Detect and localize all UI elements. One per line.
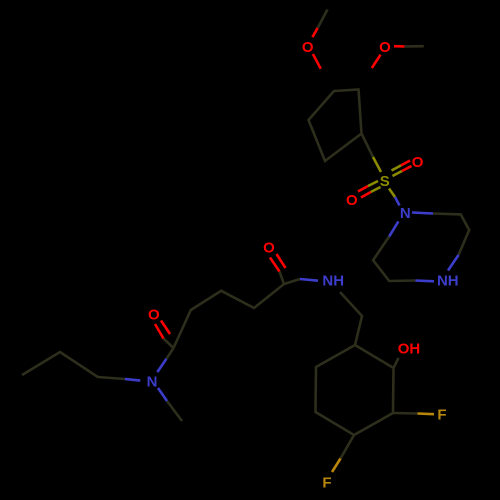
bond amide1 C to NH [284,279,300,284]
bond piperazine NH to C3 (blue half) [448,255,459,271]
glutaramide chain [174,272,285,349]
double bond S=O4 line 1 [358,181,378,192]
svg-text:OH: OH [398,340,421,357]
methyl on N2 [167,401,182,421]
svg-text:F: F [322,474,331,491]
double bond C=O6 line 1 [155,324,164,339]
bond amide NH to carbonyl C (blue half) [300,279,318,281]
bond ring1 to S [362,134,374,158]
double bond C=O6 line 2 [161,321,170,335]
double bond S=O3 line 1 [392,161,411,171]
double bond S=O3 line 2 [393,166,412,176]
chain NH to ring2 [340,292,362,345]
double bond S=O4 line 2 [361,187,381,198]
bond O1 to methyl (red half) [312,28,317,37]
bond N1 to piperazine C2 (blue half) [412,213,433,214]
double bond C=O5 line 1 [270,258,280,272]
bond N1 to piperazine C6 (blue half) [389,221,398,236]
svg-text:O: O [412,154,424,171]
piperazine ring carbons upper [433,214,469,256]
benzene ring 2 (difluorophenyl) [316,345,394,435]
bond N2 to methyl (blue half) [158,388,167,401]
methyl of left methoxy [318,10,328,29]
piperazine ring carbons lower [373,236,415,281]
bond ring2 to F1 carbon half [393,412,418,415]
bond O2 to ring1 (red half) [372,55,381,68]
bond N2 to propyl (blue half) [125,379,140,381]
svg-text:O: O [346,192,358,209]
bond piperazine NH to C5 (blue half) [416,279,435,282]
svg-text:NH: NH [322,273,344,290]
svg-text:F: F [437,407,446,424]
double bond C=O5 line 2 [277,254,286,268]
svg-text:NH: NH [437,272,459,289]
svg-text:N: N [400,205,411,222]
bond ring2 to OH [394,358,399,368]
svg-text:O: O [302,39,314,56]
benzene ring 1 (dimethoxyphenyl) [309,90,362,162]
svg-text:O: O [379,39,391,56]
methyl of right methoxy [404,45,423,48]
bond ring2 to F2 carbon half [341,435,355,459]
bond amide2 C=O carbon half [164,339,174,349]
bond amide2 C to N [166,348,173,359]
bond S to ring1 (sulfur half) [373,157,381,172]
propyl chain on N2 [22,352,125,379]
svg-text:N: N [147,373,158,390]
svg-text:O: O [148,306,160,323]
svg-text:S: S [380,173,390,190]
svg-text:O: O [263,239,275,256]
bond O2 to methyl (red half) [394,45,404,48]
bond S to N1 [389,189,400,206]
bond F1 to ring2 (fluorine half) [418,412,435,415]
bond F2 to ring2 (fluorine half) [332,459,341,473]
bond N2 to carbonyl C (blue half) [157,359,166,372]
bond O1 to ring1 (red half) [313,54,321,69]
